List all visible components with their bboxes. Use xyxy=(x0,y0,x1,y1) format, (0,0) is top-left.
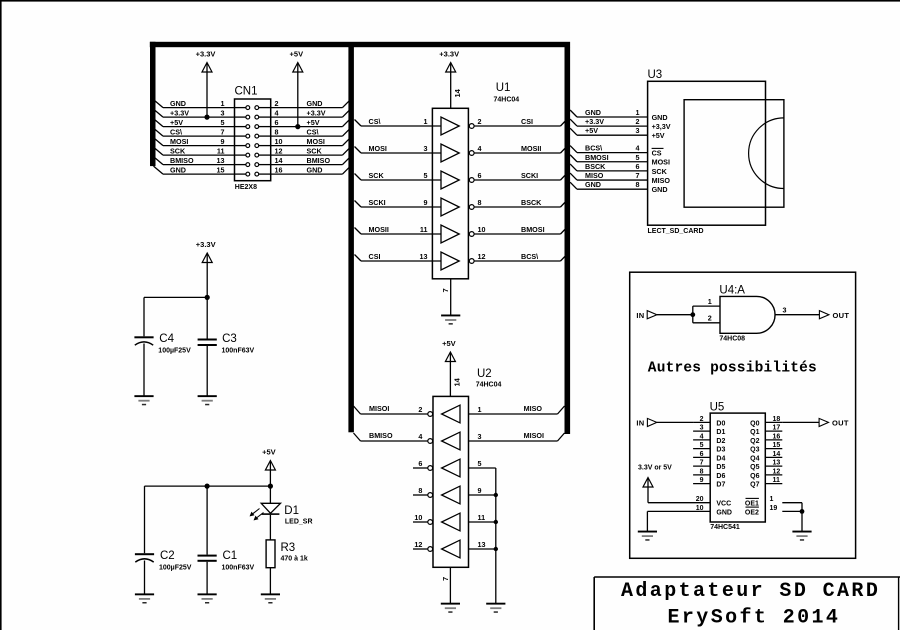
value 100nF63V C3 xyxy=(222,348,255,355)
wire C1 top stub xyxy=(206,486,208,554)
svg-text:3: 3 xyxy=(636,126,640,135)
power +3.3V above U1 xyxy=(439,50,459,109)
U3 internal pin name GND xyxy=(652,113,668,122)
label U1 xyxy=(496,82,511,94)
svg-text:Q1: Q1 xyxy=(750,429,759,436)
pin number 5 CN1 xyxy=(221,118,225,127)
svg-text:19: 19 xyxy=(770,505,778,512)
label +5V (U3 pin 3) xyxy=(585,126,598,135)
label C2 xyxy=(160,550,175,562)
pin number 12 CN1 xyxy=(275,146,283,155)
svg-text:15: 15 xyxy=(217,165,225,174)
svg-text:Q2: Q2 xyxy=(750,438,759,445)
wire U2 pin 9 stub xyxy=(469,494,496,496)
capacitor C1 xyxy=(198,555,217,562)
pin number 10 U2 xyxy=(414,513,422,522)
pin number 15 U5 xyxy=(773,442,781,449)
svg-text:BMOSI: BMOSI xyxy=(521,225,545,234)
wire U5 input pin 5 stub xyxy=(693,448,710,450)
ground U1 xyxy=(441,315,460,325)
pin number 5 U5 xyxy=(700,442,704,449)
svg-text:+5V: +5V xyxy=(442,339,456,348)
wire C4 top stub xyxy=(143,297,145,336)
wire U1 output pin 4 MOSII xyxy=(474,146,567,153)
wire U1 input pin 5 SCK xyxy=(355,174,442,181)
svg-text:2: 2 xyxy=(418,405,422,414)
wire U2 stub pin 12 xyxy=(413,548,428,550)
label R3 xyxy=(281,542,296,554)
pin number 1 CN1 xyxy=(221,99,225,108)
svg-text:+5V: +5V xyxy=(652,131,665,140)
U5 internal pin name Q2 xyxy=(750,438,759,445)
svg-text:1: 1 xyxy=(478,405,482,414)
pin number 15 CN1 xyxy=(217,165,225,174)
svg-text:Q6: Q6 xyxy=(750,473,759,480)
value LECT_SD_CARD U3 xyxy=(648,228,704,235)
svg-text:BCS\: BCS\ xyxy=(521,252,538,261)
capacitor C3 xyxy=(198,339,217,347)
junction CN1 +5V xyxy=(295,124,300,129)
svg-text:MISO: MISO xyxy=(585,171,604,180)
wire U5 output pin 18 stub xyxy=(765,421,782,423)
ground C1 xyxy=(198,593,217,603)
svg-text:3: 3 xyxy=(478,432,482,441)
svg-text:GND: GND xyxy=(585,180,601,189)
label GND (U3 pin 1) xyxy=(585,108,601,117)
ground U5 OE xyxy=(792,531,811,541)
pin number 3 U4 xyxy=(783,306,787,315)
svg-text:LECT_SD_CARD: LECT_SD_CARD xyxy=(648,228,704,235)
svg-text:9: 9 xyxy=(424,198,428,207)
svg-text:BSCK: BSCK xyxy=(585,162,606,171)
svg-text:GND: GND xyxy=(652,185,668,194)
label D1 xyxy=(284,505,299,517)
wire U5 OE to ground xyxy=(801,511,803,531)
svg-text:5: 5 xyxy=(478,459,482,468)
svg-text:+3.3V: +3.3V xyxy=(170,108,189,117)
pin number 3 U2 xyxy=(478,432,482,441)
wire CN1 right row 2 GND xyxy=(271,101,349,108)
wire CN1 left row 7 CS\ xyxy=(154,128,235,136)
svg-text:12: 12 xyxy=(275,146,283,155)
svg-text:8: 8 xyxy=(478,198,482,207)
svg-text:ErySoft 2014: ErySoft 2014 xyxy=(668,607,841,630)
svg-text:3: 3 xyxy=(221,108,225,117)
svg-text:4: 4 xyxy=(478,144,482,153)
pin number 6 U2 xyxy=(418,459,422,468)
svg-text:D7: D7 xyxy=(716,482,725,489)
pin number 8 U3 xyxy=(636,180,640,189)
label MOSI (U1 pin 3) xyxy=(369,144,387,153)
svg-text:100µF25V: 100µF25V xyxy=(158,348,191,355)
wire CN1 left row 15 GND xyxy=(154,166,235,174)
pin 7 U1 number xyxy=(441,288,450,292)
wire U5 input pin 9 stub xyxy=(693,483,710,485)
wire U3 pin 4 BCS\ xyxy=(570,146,648,153)
svg-text:12: 12 xyxy=(478,252,486,261)
svg-text:OUT: OUT xyxy=(832,419,849,428)
svg-text:OUT: OUT xyxy=(833,311,850,320)
U5 internal pin name D4 xyxy=(716,455,725,462)
svg-text:GND: GND xyxy=(170,99,186,108)
svg-text:6: 6 xyxy=(275,118,279,127)
svg-text:D4: D4 xyxy=(716,455,725,462)
wire U1 pin 7 to ground xyxy=(450,279,452,315)
pin number 7 U3 xyxy=(636,171,640,180)
U5 internal pin name GND xyxy=(716,509,732,516)
pin number 6 U3 xyxy=(636,162,640,171)
label CS\ (U1 pin 1) xyxy=(369,117,381,126)
wire U1 input pin 3 MOSI xyxy=(355,147,442,154)
pin number 2 CN1 xyxy=(275,99,279,108)
pin number 14 U5 xyxy=(773,451,781,458)
wire U5 pin 18 to OUT xyxy=(782,421,819,423)
wire U2 pin 7 to ground xyxy=(449,567,451,603)
wire U1 input pin 13 CSI xyxy=(355,255,442,262)
inverter U1 gate 3 xyxy=(441,171,474,189)
svg-text:U3: U3 xyxy=(648,69,663,81)
wire U5 input pin 2 stub xyxy=(693,421,710,423)
svg-text:12: 12 xyxy=(773,468,781,475)
U5 internal pin name Q0 xyxy=(750,420,759,427)
svg-text:11: 11 xyxy=(773,477,781,484)
resistor R3 xyxy=(266,540,275,568)
wire U2 output pin 2 MISOI xyxy=(354,406,428,414)
svg-text:C1: C1 xyxy=(223,550,238,562)
svg-text:11: 11 xyxy=(420,225,428,234)
wire U5 OE1 link xyxy=(782,503,802,512)
U3 internal pin name +5V xyxy=(652,131,665,140)
wire IN to U4 junction xyxy=(657,314,693,316)
junction D1 rail xyxy=(268,484,273,489)
svg-text:SCK: SCK xyxy=(307,146,323,155)
pin number 6 U5 xyxy=(700,451,704,458)
border frame left xyxy=(0,0,2,630)
svg-text:Q7: Q7 xyxy=(750,482,759,489)
U3 internal pin name MISO xyxy=(652,176,671,185)
title ErySoft 2014 xyxy=(668,607,841,630)
pin number 16 U5 xyxy=(773,433,781,440)
svg-text:9: 9 xyxy=(700,477,704,484)
svg-text:14: 14 xyxy=(275,156,283,165)
label C1 xyxy=(223,550,238,562)
U5 internal pin name D5 xyxy=(716,464,725,471)
svg-text:GND: GND xyxy=(170,165,186,174)
pin number 11 U1 xyxy=(420,225,428,234)
svg-text:18: 18 xyxy=(773,416,781,423)
svg-text:14: 14 xyxy=(453,88,462,97)
svg-text:VCC: VCC xyxy=(716,501,731,508)
label SCK (CN1 pin 12) xyxy=(307,146,323,155)
value 100µF25V C4 xyxy=(158,348,191,355)
svg-text:CS\: CS\ xyxy=(307,127,319,136)
svg-text:2: 2 xyxy=(708,314,712,323)
svg-text:12: 12 xyxy=(414,540,422,549)
svg-text:16: 16 xyxy=(773,433,781,440)
pin number 4 U2 xyxy=(418,432,422,441)
wire U5 GND down xyxy=(646,511,648,531)
svg-text:2: 2 xyxy=(275,99,279,108)
U5 internal pin name Q1 xyxy=(750,429,759,436)
svg-text:U5: U5 xyxy=(710,402,725,414)
title Adaptateur SD CARD xyxy=(621,580,880,603)
svg-text:MISOI: MISOI xyxy=(369,404,389,413)
pin number 4 U5 xyxy=(700,433,704,440)
power +3.3V above CN1 xyxy=(196,50,216,118)
pin number 17 U5 xyxy=(773,425,781,432)
wire U1 output pin 12 BCS\ xyxy=(474,254,567,261)
svg-text:5: 5 xyxy=(700,442,704,449)
svg-text:13: 13 xyxy=(217,156,225,165)
svg-text:8: 8 xyxy=(418,486,422,495)
pin number 4 U1 xyxy=(478,144,482,153)
input flag IN U4 xyxy=(636,311,657,320)
inverter U2 gate 6 xyxy=(428,540,460,558)
wire CN1 right row 14 BMISO xyxy=(271,158,349,165)
svg-text:74HC08: 74HC08 xyxy=(719,336,745,343)
svg-text:SCK: SCK xyxy=(652,167,668,176)
svg-text:74HC04: 74HC04 xyxy=(476,382,502,389)
label GND (CN1 pin 1) xyxy=(170,99,186,108)
pin number 5 U3 xyxy=(636,153,640,162)
value 470 à 1k R3 xyxy=(281,556,308,563)
wire U5 output pin 11 stub xyxy=(765,483,782,485)
svg-text:CSI: CSI xyxy=(369,252,381,261)
U3 internal pin name CS xyxy=(652,148,664,157)
svg-text:D1: D1 xyxy=(716,429,725,436)
wire CN1 left row 11 SCK xyxy=(154,147,235,155)
svg-text:13: 13 xyxy=(478,540,486,549)
and gate U4 xyxy=(720,296,775,333)
svg-text:10: 10 xyxy=(275,137,283,146)
wire CN1 left row 9 MOSI xyxy=(154,138,235,146)
pin number 13 U2 xyxy=(478,540,486,549)
wire U1 input pin 9 SCKI xyxy=(355,201,442,208)
svg-text:SCK: SCK xyxy=(170,146,186,155)
U5 internal pin name D3 xyxy=(716,447,725,454)
pin number 3 U3 xyxy=(636,126,640,135)
label U3 xyxy=(648,69,663,81)
U3 internal pin name +3,3V xyxy=(652,122,671,131)
value 100nF63V C1 xyxy=(222,565,255,572)
inverter U1 gate 4 xyxy=(441,198,474,216)
svg-text:7: 7 xyxy=(636,171,640,180)
pin 7 U2 number xyxy=(441,577,450,581)
svg-text:Q3: Q3 xyxy=(750,447,759,454)
wire U3 pin 7 MISO xyxy=(570,173,648,180)
label +3.3V (U3 pin 2) xyxy=(585,117,604,126)
svg-text:D2: D2 xyxy=(716,438,725,445)
label U4:A xyxy=(719,285,745,297)
svg-text:9: 9 xyxy=(221,137,225,146)
svg-text:Autres possibilités: Autres possibilités xyxy=(648,360,817,376)
power +5V above U2 xyxy=(442,339,456,396)
wire C2 top stub xyxy=(144,486,146,553)
pin number 6 U1 xyxy=(478,171,482,180)
pin number 18 U5 xyxy=(773,416,781,423)
svg-text:74HC04: 74HC04 xyxy=(494,97,520,104)
ground U5 GND xyxy=(638,531,657,541)
svg-text:HE2X8: HE2X8 xyxy=(235,184,257,191)
pin number 3 CN1 xyxy=(221,108,225,117)
svg-text:MOSII: MOSII xyxy=(521,144,541,153)
svg-text:1: 1 xyxy=(708,297,712,306)
pin number 14 CN1 xyxy=(275,156,283,165)
inverter U2 gate 2 xyxy=(428,432,460,450)
svg-text:100nF63V: 100nF63V xyxy=(222,565,255,572)
bus right vertical xyxy=(565,47,571,434)
svg-text:+5V: +5V xyxy=(585,126,598,135)
svg-text:470 à 1k: 470 à 1k xyxy=(281,556,308,563)
svg-text:9: 9 xyxy=(478,486,482,495)
svg-text:100nF63V: 100nF63V xyxy=(222,348,255,355)
wire +5V rail C2-C1-D1 xyxy=(145,485,271,487)
wire C3 top stub xyxy=(206,297,208,338)
label GND (U3 pin 8) xyxy=(585,180,601,189)
pin number 1 U1 xyxy=(424,117,428,126)
wire U1 input pin 1 CS\ xyxy=(355,120,442,127)
svg-text:OE2: OE2 xyxy=(745,509,759,516)
pin number 9 CN1 xyxy=(221,137,225,146)
wire U2 pin 3 MISOI xyxy=(469,433,565,441)
wire CN1 right row 4 +3.3V xyxy=(271,111,349,118)
bus middle vertical xyxy=(348,47,354,432)
U5 internal pin name Q4 xyxy=(750,455,759,462)
value 74HC541 U5 xyxy=(710,524,740,531)
svg-text:BMISO: BMISO xyxy=(369,431,393,440)
svg-text:CN1: CN1 xyxy=(235,86,258,98)
wire U3 pin 2 +3.3V xyxy=(570,119,648,126)
pin number 11 CN1 xyxy=(217,146,225,155)
inverter U2 gate 5 xyxy=(428,513,460,531)
svg-text:Q0: Q0 xyxy=(750,420,759,427)
svg-text:15: 15 xyxy=(773,442,781,449)
wire U4 pin1-pin2 link xyxy=(692,306,694,323)
svg-text:16: 16 xyxy=(275,165,283,174)
svg-text:SCK: SCK xyxy=(369,171,385,180)
wire U2 pin 5 to pulldown rail xyxy=(469,467,496,469)
svg-text:17: 17 xyxy=(773,425,781,432)
pin number 2 U2 xyxy=(418,405,422,414)
input flag IN U5 xyxy=(636,418,656,427)
label SCKI (U1 pin 9) xyxy=(369,198,386,207)
wire +3.3V rail C4-C3 xyxy=(144,296,207,298)
svg-text:D1: D1 xyxy=(284,505,299,517)
wire U2 stub pin 10 xyxy=(413,521,428,523)
wire CN1 right row 16 GND xyxy=(271,168,349,175)
wire U1 output pin 6 SCKI xyxy=(474,173,567,180)
label C3 xyxy=(222,333,237,345)
svg-text:GND: GND xyxy=(585,108,601,117)
wire U4 pin 2 stub xyxy=(693,322,720,324)
wire U3 pin 1 GND xyxy=(570,110,648,117)
inverter U1 gate 1 xyxy=(441,117,474,135)
U5 internal pin name Q5 xyxy=(750,464,759,471)
title Autres possibilités xyxy=(648,360,817,376)
svg-text:6: 6 xyxy=(700,451,704,458)
pin number 13 U5 xyxy=(773,460,781,467)
pin number 8 U2 xyxy=(418,486,422,495)
wire U3 pin 5 BMOSI xyxy=(570,155,648,162)
wire R3 to ground xyxy=(269,568,271,594)
pin number 11 U2 xyxy=(478,513,486,522)
label +3.3V (CN1 pin 3) xyxy=(170,108,189,117)
label MOSI (CN1 pin 9) xyxy=(170,137,188,146)
label +3.3V (CN1 pin 4) xyxy=(307,108,326,117)
connector U3 LECT_SD_CARD outline xyxy=(648,81,766,225)
svg-text:6: 6 xyxy=(418,459,422,468)
pin number 19 U5 xyxy=(770,505,778,512)
wire CN1 left row 13 BMISO xyxy=(154,157,235,165)
pin number 10 CN1 xyxy=(275,137,283,146)
pin number 4 U3 xyxy=(636,144,640,153)
pin number 12 U1 xyxy=(478,252,486,261)
svg-text:MOSI: MOSI xyxy=(369,144,387,153)
pin number 2 U3 xyxy=(636,117,640,126)
pin 14 U1 number xyxy=(453,88,462,97)
svg-text:MOSI: MOSI xyxy=(652,158,670,167)
ground C2 xyxy=(135,593,154,603)
capacitor C4 (electrolytic) xyxy=(134,336,153,345)
bus top rail xyxy=(150,42,570,47)
wire U5 OE2 link xyxy=(782,510,802,512)
svg-text:BMISO: BMISO xyxy=(170,156,194,165)
U5 internal pin name Q6 xyxy=(750,473,759,480)
ground R3 xyxy=(261,593,280,603)
wire CN1 left row 3 +3.3V xyxy=(154,109,235,117)
ground U2 pulldown xyxy=(486,603,505,613)
wire U5 input pin 3 stub xyxy=(693,430,710,432)
buffer U5 body (74HC541) xyxy=(710,413,765,522)
label BMOSI (U3 pin 5) xyxy=(585,153,609,162)
pin number 11 U5 xyxy=(773,477,781,484)
svg-text:C2: C2 xyxy=(160,550,175,562)
U5 internal pin name D1 xyxy=(716,429,725,436)
wire CN1 right row 6 +5V xyxy=(271,120,349,127)
pin number 5 U2 xyxy=(478,459,482,468)
wire CN1 right row 10 MOSI xyxy=(271,139,349,146)
svg-text:+3.3V: +3.3V xyxy=(439,50,459,59)
svg-text:7: 7 xyxy=(441,577,450,581)
svg-text:74HC541: 74HC541 xyxy=(710,524,740,531)
U3 internal pin name SCK xyxy=(652,167,668,176)
value LED_SR D1 xyxy=(285,519,313,526)
label GND (CN1 pin 2) xyxy=(307,99,323,108)
svg-text:MOSI: MOSI xyxy=(170,137,188,146)
wire U5 VCC pin 20 stub xyxy=(648,502,710,504)
wire U5 output pin 15 stub xyxy=(765,448,782,450)
svg-text:Adaptateur SD CARD: Adaptateur SD CARD xyxy=(621,580,880,603)
wire IN to U5 pin 2 xyxy=(657,421,693,423)
wire U3 pin 6 BSCK xyxy=(570,164,648,171)
svg-text:U2: U2 xyxy=(477,368,492,380)
pin number 1 U3 xyxy=(636,108,640,117)
wire U4 output pin 3 xyxy=(775,314,819,316)
svg-text:14: 14 xyxy=(773,451,781,458)
wire U3 pin 8 GND xyxy=(570,182,648,189)
svg-text:8: 8 xyxy=(700,468,704,475)
label CSI (U1 pin 13) xyxy=(369,252,381,261)
label CS\ (CN1 pin 7) xyxy=(170,127,182,136)
junction C1 rail xyxy=(205,484,210,489)
svg-text:13: 13 xyxy=(420,252,428,261)
svg-text:4: 4 xyxy=(418,432,422,441)
svg-text:10: 10 xyxy=(696,505,704,512)
svg-text:+3.3V: +3.3V xyxy=(585,117,604,126)
title block frame xyxy=(594,577,900,630)
value 74HC04 U1 xyxy=(494,97,520,104)
svg-text:GND: GND xyxy=(652,113,668,122)
